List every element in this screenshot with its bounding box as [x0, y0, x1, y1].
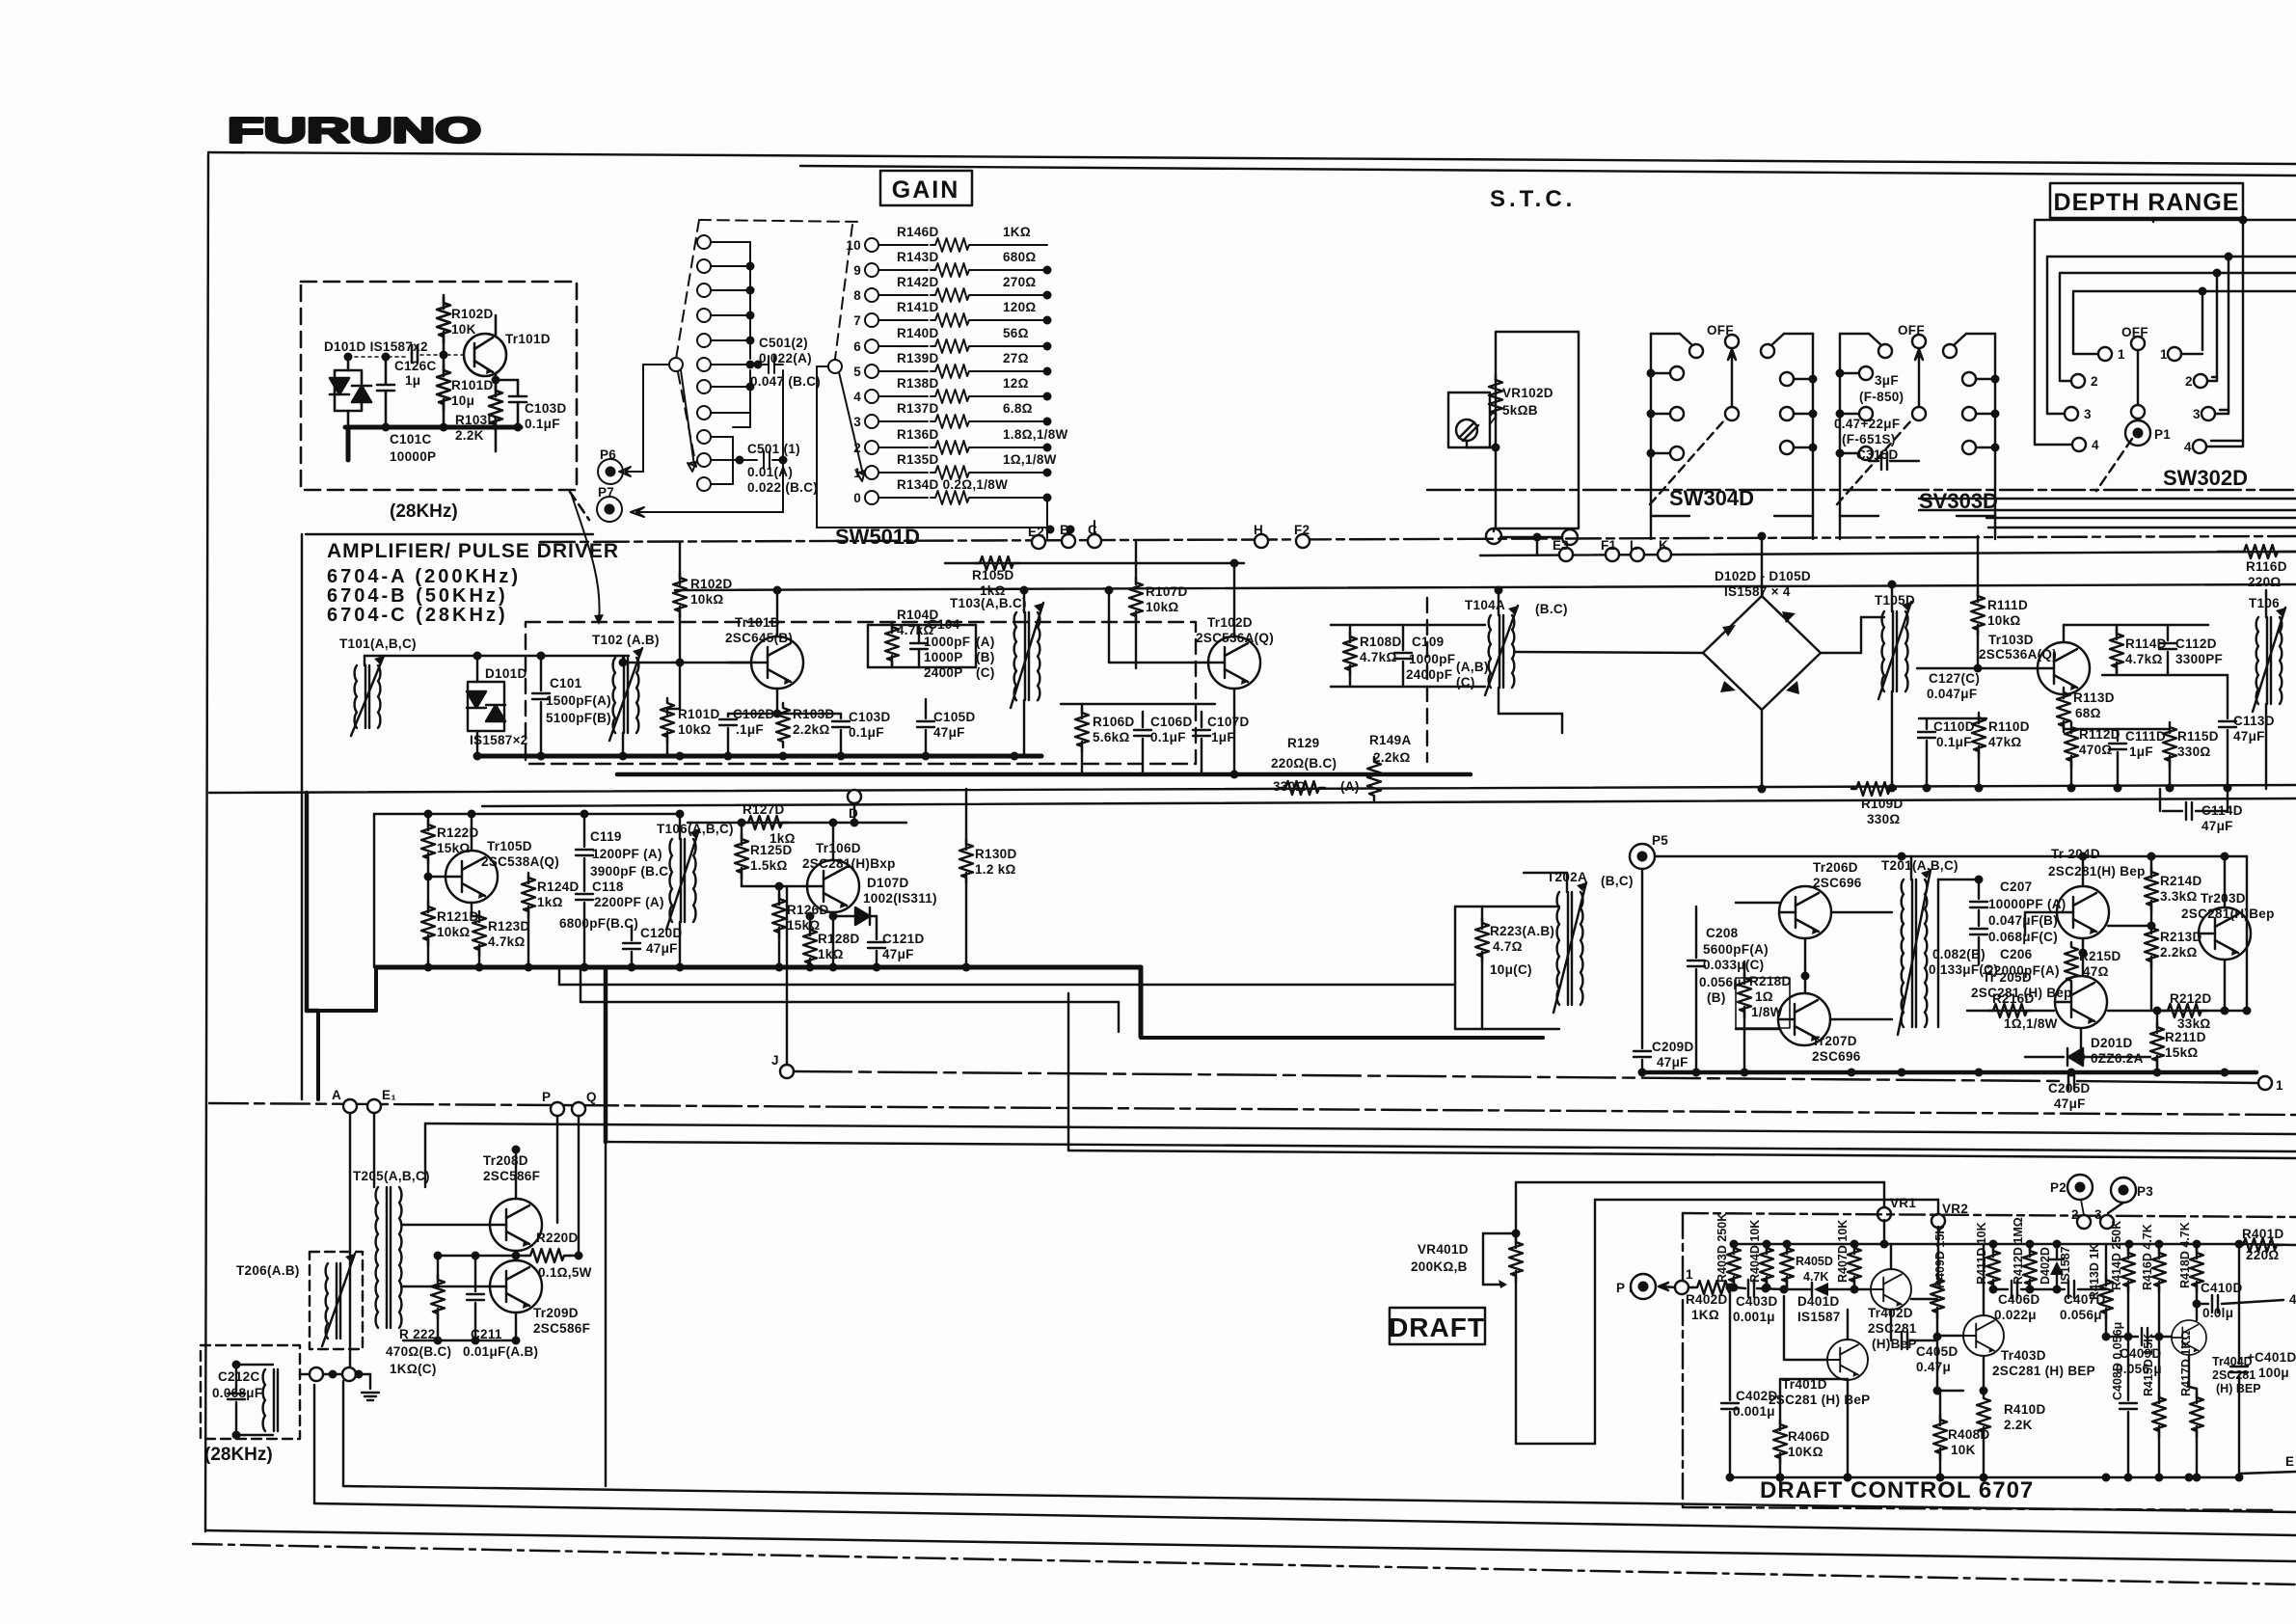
- svg-text:2SC281: 2SC281: [1868, 1321, 1917, 1336]
- svg-text:Tr401D: Tr401D: [1782, 1377, 1827, 1392]
- svg-text:470Ω(B.C): 470Ω(B.C): [386, 1344, 451, 1359]
- svg-text:R408D: R408D: [1948, 1427, 1990, 1442]
- svg-text:R134D 0.2Ω,1/8W: R134D 0.2Ω,1/8W: [897, 477, 1008, 492]
- svg-text:0ZZ6.2A: 0ZZ6.2A: [2091, 1051, 2144, 1066]
- svg-text:27Ω: 27Ω: [1003, 351, 1029, 365]
- svg-text:R135D: R135D: [897, 452, 939, 467]
- svg-text:4.7K: 4.7K: [1803, 1270, 1828, 1284]
- svg-text:R213D: R213D: [2160, 930, 2202, 944]
- svg-text:1KΩ(C): 1KΩ(C): [390, 1362, 437, 1376]
- svg-text:C113D: C113D: [2233, 714, 2275, 728]
- svg-text:R102D: R102D: [451, 307, 494, 321]
- svg-text:4.7Ω: 4.7Ω: [1493, 939, 1523, 954]
- svg-text:D401D: D401D: [1797, 1294, 1840, 1309]
- svg-text:6800pF(B.C): 6800pF(B.C): [559, 916, 638, 931]
- svg-text:T103(A,B.C): T103(A,B.C): [950, 596, 1027, 610]
- svg-text:VR1: VR1: [1890, 1196, 1916, 1210]
- svg-text:OFF: OFF: [1707, 323, 1734, 338]
- svg-text:2.2kΩ: 2.2kΩ: [793, 722, 830, 737]
- svg-text:2SC538A(Q): 2SC538A(Q): [481, 854, 559, 869]
- svg-text:R215D: R215D: [2079, 949, 2121, 963]
- svg-text:8: 8: [853, 288, 861, 303]
- svg-text:2SC281(H)Bxp: 2SC281(H)Bxp: [802, 856, 896, 871]
- svg-text:68Ω: 68Ω: [2075, 706, 2101, 720]
- svg-text:R139D: R139D: [897, 351, 939, 365]
- svg-text:C111D: C111D: [2125, 729, 2166, 744]
- svg-text:10kΩ: 10kΩ: [690, 592, 724, 607]
- svg-text:0.047μF(B): 0.047μF(B): [1988, 913, 2058, 928]
- svg-text:C120D: C120D: [640, 926, 683, 940]
- svg-text:R410D: R410D: [2004, 1402, 2046, 1417]
- svg-text:R110D: R110D: [1988, 719, 2030, 734]
- svg-text:R130D: R130D: [975, 847, 1017, 861]
- svg-text:Tr101D: Tr101D: [505, 332, 551, 346]
- svg-text:T104A: T104A: [1465, 598, 1505, 612]
- svg-text:0.022(A): 0.022(A): [759, 351, 812, 365]
- svg-text:47μF: 47μF: [933, 725, 965, 740]
- svg-text:R106D: R106D: [1093, 715, 1135, 729]
- svg-text:330Ω: 330Ω: [1273, 779, 1307, 794]
- svg-text:(F-850): (F-850): [1859, 390, 1904, 404]
- svg-text:R113D: R113D: [2073, 690, 2115, 705]
- svg-text:D402D: D402D: [2039, 1247, 2052, 1285]
- svg-text:F2: F2: [1294, 523, 1310, 537]
- svg-text:R109D: R109D: [1861, 797, 1904, 811]
- svg-text:C101: C101: [550, 676, 582, 690]
- svg-text:Q: Q: [586, 1090, 597, 1104]
- svg-text:1.2 kΩ: 1.2 kΩ: [975, 862, 1016, 877]
- svg-text:R214D: R214D: [2160, 874, 2202, 888]
- svg-text:5.6kΩ: 5.6kΩ: [1093, 730, 1130, 744]
- svg-text:10000P: 10000P: [390, 449, 436, 464]
- svg-text:P1: P1: [2154, 427, 2171, 442]
- svg-text:R409D 15K: R409D 15K: [1933, 1226, 1947, 1288]
- svg-text:C112D: C112D: [2175, 636, 2217, 651]
- svg-text:5600pF(A): 5600pF(A): [1703, 942, 1769, 957]
- svg-text:C101C: C101C: [390, 432, 432, 447]
- svg-text:(A): (A): [1340, 779, 1360, 794]
- svg-text:2SC281 (H) BEP: 2SC281 (H) BEP: [1992, 1364, 2095, 1378]
- svg-text:R141D: R141D: [897, 300, 939, 314]
- svg-text:2.2kΩ: 2.2kΩ: [2160, 945, 2198, 960]
- svg-text:R416D 4.7K: R416D 4.7K: [2141, 1224, 2154, 1290]
- svg-text:R212D: R212D: [2170, 991, 2212, 1006]
- svg-text:6.8Ω: 6.8Ω: [1003, 401, 1033, 416]
- svg-text:.1μF: .1μF: [736, 722, 764, 737]
- svg-text:Tr101D: Tr101D: [735, 615, 780, 630]
- svg-text:15kΩ: 15kΩ: [437, 841, 471, 855]
- svg-text:(B,C): (B,C): [1601, 874, 1634, 888]
- svg-text:R112D: R112D: [2079, 727, 2120, 742]
- svg-text:R129: R129: [1287, 736, 1319, 750]
- svg-text:C102D: C102D: [733, 707, 775, 721]
- svg-text:Tr403D: Tr403D: [2001, 1348, 2046, 1363]
- svg-text:10K: 10K: [1951, 1443, 1976, 1457]
- svg-text:2.2kΩ: 2.2kΩ: [1373, 750, 1411, 765]
- svg-text:T102 (A.B): T102 (A.B): [592, 633, 660, 647]
- svg-text:0.022 (B.C): 0.022 (B.C): [747, 480, 818, 495]
- svg-text:3: 3: [2193, 407, 2201, 421]
- svg-text:R115D: R115D: [2177, 729, 2219, 744]
- svg-text:0.1μF: 0.1μF: [525, 417, 560, 431]
- svg-text:0.0lμ: 0.0lμ: [2202, 1306, 2233, 1320]
- svg-text:OFF: OFF: [1898, 323, 1925, 338]
- svg-text:0.082(B): 0.082(B): [1932, 947, 1985, 961]
- svg-text:2400P: 2400P: [924, 665, 963, 680]
- svg-text:1KΩ: 1KΩ: [1691, 1308, 1719, 1322]
- svg-text:R128D: R128D: [818, 932, 860, 946]
- svg-text:4.7kΩ: 4.7kΩ: [488, 934, 526, 949]
- svg-text:3: 3: [2094, 1207, 2102, 1222]
- svg-text:1000pF: 1000pF: [924, 635, 970, 649]
- svg-text:VR2: VR2: [1942, 1202, 1968, 1216]
- svg-text:R101D: R101D: [451, 378, 494, 392]
- svg-text:(B): (B): [976, 650, 995, 664]
- svg-text:C402D: C402D: [1736, 1389, 1778, 1403]
- svg-text:Tr 204D: Tr 204D: [2051, 847, 2100, 861]
- svg-text:6704-B (50KHz): 6704-B (50KHz): [327, 585, 508, 607]
- svg-text:R123D: R123D: [488, 919, 530, 934]
- svg-text:(28KHz): (28KHz): [204, 1445, 273, 1465]
- svg-text:R138D: R138D: [897, 376, 939, 391]
- svg-text:R126D: R126D: [787, 903, 829, 917]
- svg-text:2SC281(H) Bеp: 2SC281(H) Bеp: [2048, 864, 2146, 879]
- svg-text:AMPLIFIER/ PULSE DRIVER: AMPLIFIER/ PULSE DRIVER: [327, 540, 619, 562]
- svg-text:R105D: R105D: [972, 568, 1014, 582]
- svg-text:R216D: R216D: [1992, 991, 2035, 1006]
- svg-text:SW302D: SW302D: [2163, 466, 2248, 490]
- svg-text:C104: C104: [928, 617, 960, 632]
- svg-text:Tr 205D: Tr 205D: [1983, 970, 2032, 985]
- svg-text:470Ω: 470Ω: [2079, 743, 2113, 757]
- svg-text:1.5kΩ: 1.5kΩ: [750, 858, 788, 873]
- svg-text:0.47+22μF: 0.47+22μF: [1834, 417, 1900, 431]
- svg-text:R218D: R218D: [1749, 974, 1792, 988]
- svg-text:R412D 1MΩ: R412D 1MΩ: [2012, 1217, 2025, 1285]
- svg-text:C103D: C103D: [525, 401, 567, 416]
- svg-text:47μF: 47μF: [2054, 1096, 2086, 1111]
- svg-text:R404D 10K: R404D 10K: [1748, 1220, 1762, 1283]
- svg-text:C: C: [1088, 523, 1097, 537]
- svg-text:10: 10: [846, 238, 861, 253]
- svg-text:3: 3: [853, 415, 861, 429]
- svg-text:6: 6: [853, 339, 861, 354]
- svg-text:Tr206D: Tr206D: [1813, 860, 1858, 875]
- svg-text:1μF: 1μF: [1211, 730, 1235, 744]
- svg-text:E: E: [2285, 1454, 2294, 1469]
- svg-text:2SC696: 2SC696: [1813, 876, 1862, 890]
- svg-text:0.001μ: 0.001μ: [1733, 1404, 1775, 1419]
- svg-text:R 222: R 222: [399, 1327, 436, 1341]
- svg-text:R417D 1KΩ: R417D 1KΩ: [2179, 1331, 2193, 1396]
- svg-text:R127D: R127D: [743, 802, 785, 817]
- svg-text:7: 7: [853, 313, 861, 328]
- svg-text:120Ω: 120Ω: [1003, 300, 1037, 314]
- svg-text:C209D: C209D: [1652, 1040, 1694, 1054]
- svg-text:33kΩ: 33kΩ: [2177, 1016, 2211, 1031]
- svg-text:12Ω: 12Ω: [1003, 376, 1029, 391]
- svg-text:DRAFT CONTROL 6707: DRAFT CONTROL 6707: [1760, 1477, 2034, 1503]
- svg-text:4.7kΩ: 4.7kΩ: [1360, 650, 1397, 664]
- svg-text:R401D: R401D: [2242, 1227, 2284, 1241]
- svg-text:H: H: [1254, 523, 1263, 537]
- svg-text:0.068μF: 0.068μF: [212, 1386, 262, 1400]
- svg-text:(B.C): (B.C): [1535, 602, 1568, 616]
- svg-text:R406D: R406D: [1788, 1429, 1830, 1444]
- svg-text:T106(A,B,C): T106(A,B,C): [657, 822, 734, 836]
- svg-text:P: P: [542, 1090, 551, 1104]
- svg-text:D101D IS1587x2: D101D IS1587x2: [324, 339, 428, 354]
- svg-text:47μF: 47μF: [646, 941, 678, 956]
- svg-text:R114D: R114D: [2125, 636, 2167, 651]
- svg-text:C501 (1): C501 (1): [747, 442, 800, 456]
- svg-text:0.047μF: 0.047μF: [1927, 687, 1977, 701]
- svg-text:T101(A,B,C): T101(A,B,C): [339, 636, 417, 651]
- svg-text:D101D: D101D: [485, 666, 527, 681]
- svg-text:Tr105D: Tr105D: [487, 839, 532, 853]
- svg-text:330Ω: 330Ω: [1867, 812, 1901, 826]
- svg-text:T205(A,B,C): T205(A,B,C): [353, 1169, 430, 1183]
- svg-text:1500pF(A): 1500pF(A): [546, 693, 611, 708]
- svg-text:4.7kΩ: 4.7kΩ: [2125, 652, 2163, 666]
- svg-text:2SC281: 2SC281: [2212, 1368, 2255, 1382]
- svg-text:47μF: 47μF: [882, 947, 914, 961]
- svg-text:R140D: R140D: [897, 326, 939, 340]
- svg-text:2: 2: [853, 441, 861, 455]
- svg-text:47Ω: 47Ω: [2083, 964, 2109, 979]
- svg-text:10μ: 10μ: [451, 393, 474, 408]
- svg-text:2400pF: 2400pF: [1406, 667, 1452, 682]
- svg-text:10kΩ: 10kΩ: [437, 925, 471, 939]
- svg-text:R407D 10K: R407D 10K: [1836, 1220, 1850, 1283]
- svg-text:R149A: R149A: [1369, 733, 1412, 747]
- svg-text:Tr207D: Tr207D: [1812, 1034, 1857, 1048]
- svg-text:S.T.C.: S.T.C.: [1490, 186, 1576, 212]
- svg-text:C206: C206: [2000, 947, 2033, 961]
- svg-text:OFF: OFF: [2121, 325, 2148, 339]
- svg-text:R142D: R142D: [897, 275, 939, 289]
- svg-text:F1: F1: [1601, 538, 1617, 553]
- svg-text:1Ω: 1Ω: [1755, 989, 1773, 1004]
- svg-text:10μ(C): 10μ(C): [1490, 962, 1532, 977]
- svg-text:1kΩ: 1kΩ: [980, 583, 1006, 598]
- svg-text:R411D 10K: R411D 10K: [1975, 1222, 1988, 1285]
- svg-text:J: J: [771, 1053, 779, 1068]
- svg-text:R116D: R116D: [2246, 559, 2287, 574]
- svg-text:P3: P3: [2137, 1184, 2153, 1199]
- svg-text:D: D: [849, 806, 858, 821]
- svg-text:Tr402D: Tr402D: [1868, 1306, 1913, 1320]
- svg-text:2SC586F: 2SC586F: [533, 1321, 590, 1336]
- svg-text:(H) BEP: (H) BEP: [2216, 1382, 2261, 1395]
- svg-text:0.056μ: 0.056μ: [1699, 975, 1742, 989]
- svg-text:0.47μ: 0.47μ: [1916, 1360, 1951, 1374]
- svg-text:Tr103D: Tr103D: [1988, 633, 2034, 647]
- svg-text:C121D: C121D: [882, 932, 925, 946]
- svg-text:2SC536A(Q): 2SC536A(Q): [1979, 647, 2057, 662]
- svg-text:C127(C): C127(C): [1929, 671, 1980, 686]
- svg-text:2.2K: 2.2K: [2004, 1418, 2033, 1432]
- svg-text:C126C: C126C: [394, 359, 437, 373]
- svg-text:A: A: [332, 1088, 341, 1102]
- svg-text:(A,B): (A,B): [1456, 660, 1489, 674]
- svg-text:1μF: 1μF: [2129, 744, 2153, 759]
- svg-text:P6: P6: [600, 447, 616, 462]
- svg-text:C205D: C205D: [2048, 1081, 2091, 1096]
- svg-text:0.1μF: 0.1μF: [1150, 730, 1186, 744]
- svg-text:R102D: R102D: [690, 577, 733, 591]
- svg-text:R211D: R211D: [2165, 1030, 2206, 1044]
- svg-text:(B): (B): [1707, 990, 1726, 1005]
- svg-text:2.2K: 2.2K: [455, 428, 484, 443]
- svg-text:K: K: [1659, 538, 1668, 553]
- svg-text:R418D 4.7K: R418D 4.7K: [2178, 1222, 2192, 1288]
- svg-text:0.022μ: 0.022μ: [1994, 1308, 2037, 1322]
- svg-text:R111D: R111D: [1987, 598, 2028, 612]
- svg-text:10kΩ: 10kΩ: [1987, 613, 2021, 628]
- svg-text:R220D: R220D: [536, 1231, 579, 1245]
- svg-text:C408D 0.056μ: C408D 0.056μ: [2111, 1322, 2124, 1400]
- svg-text:4: 4: [853, 390, 861, 404]
- svg-text:C410D: C410D: [2201, 1281, 2243, 1295]
- svg-text:0.1Ω,5W: 0.1Ω,5W: [538, 1265, 592, 1280]
- svg-text:1Ω,1/8W: 1Ω,1/8W: [1003, 452, 1057, 467]
- svg-text:47μF: 47μF: [1657, 1055, 1688, 1069]
- svg-text:2SC281 (H) BеP: 2SC281 (H) BеP: [1769, 1393, 1871, 1407]
- svg-text:R143D: R143D: [897, 250, 939, 264]
- svg-text:3: 3: [2084, 407, 2092, 421]
- svg-text:15kΩ: 15kΩ: [2165, 1045, 2199, 1060]
- svg-text:200KΩ,B: 200KΩ,B: [1411, 1259, 1468, 1274]
- svg-text:P2: P2: [2050, 1180, 2066, 1195]
- svg-text:0.001μ: 0.001μ: [1733, 1310, 1775, 1324]
- svg-text:0.047 (B.C): 0.047 (B.C): [750, 374, 821, 389]
- svg-text:C103D: C103D: [849, 710, 891, 724]
- svg-text:R223(A.B): R223(A.B): [1490, 924, 1554, 938]
- svg-text:D102D - D105D: D102D - D105D: [1715, 569, 1811, 583]
- svg-text:3300PF: 3300PF: [2175, 652, 2223, 666]
- svg-text:1: 1: [1686, 1267, 1693, 1282]
- svg-text:5: 5: [853, 365, 861, 379]
- svg-text:2SC281(H)Bеp: 2SC281(H)Bеp: [2181, 907, 2275, 921]
- svg-text:0.01(A): 0.01(A): [747, 465, 793, 479]
- svg-text:C105D: C105D: [933, 710, 976, 724]
- svg-text:2200PF (A): 2200PF (A): [594, 895, 664, 909]
- svg-text:0.068μF(C): 0.068μF(C): [1988, 930, 2058, 944]
- svg-text:10kΩ: 10kΩ: [1146, 600, 1179, 614]
- svg-text:IS1587: IS1587: [2059, 1246, 2072, 1285]
- svg-text:C405D: C405D: [1916, 1344, 1958, 1359]
- svg-text:9: 9: [853, 263, 861, 278]
- svg-text:R122D: R122D: [437, 826, 479, 840]
- svg-text:E₁: E₁: [382, 1088, 396, 1102]
- svg-text:1μ: 1μ: [405, 373, 420, 388]
- svg-text:1/8W: 1/8W: [1751, 1005, 1783, 1019]
- svg-text:Tr203D: Tr203D: [2201, 891, 2246, 906]
- svg-text:IS1587 × 4: IS1587 × 4: [1724, 584, 1791, 599]
- svg-text:4: 4: [2092, 438, 2099, 452]
- svg-text:D201D: D201D: [2091, 1036, 2133, 1050]
- svg-text:C403D: C403D: [1736, 1294, 1778, 1309]
- svg-text:0.1μF: 0.1μF: [1936, 735, 1972, 749]
- svg-text:R136D: R136D: [897, 427, 939, 442]
- svg-text:R125D: R125D: [750, 843, 793, 857]
- svg-text:T105D: T105D: [1875, 593, 1915, 608]
- svg-text:1: 1: [2160, 347, 2168, 362]
- svg-text:0: 0: [853, 491, 861, 505]
- svg-text:220Ω: 220Ω: [2246, 1248, 2280, 1262]
- svg-text:C107D: C107D: [1207, 715, 1250, 729]
- svg-text:R146D: R146D: [897, 225, 939, 239]
- svg-text:Tr106D: Tr106D: [816, 841, 861, 855]
- svg-text:R107D: R107D: [1146, 584, 1188, 599]
- svg-text:R103D: R103D: [793, 707, 835, 721]
- svg-text:(C): (C): [1456, 675, 1475, 690]
- svg-text:3μF: 3μF: [1875, 373, 1899, 388]
- svg-text:R137D: R137D: [897, 401, 939, 416]
- svg-text:DRAFT: DRAFT: [1389, 1313, 1485, 1342]
- svg-text:T106: T106: [2249, 596, 2280, 610]
- svg-text:(H)BеP: (H)BеP: [1872, 1337, 1917, 1351]
- svg-text:1200PF (A): 1200PF (A): [592, 847, 662, 861]
- svg-text:1kΩ: 1kΩ: [537, 895, 563, 909]
- svg-text:10000PF (A): 10000PF (A): [1988, 897, 2066, 911]
- svg-text:2SC696: 2SC696: [1812, 1049, 1861, 1064]
- svg-text:R101D: R101D: [678, 707, 720, 721]
- svg-text:1000pF: 1000pF: [1409, 652, 1455, 666]
- svg-text:1002(IS311): 1002(IS311): [863, 891, 937, 906]
- svg-text:100μ: 100μ: [2258, 1366, 2289, 1380]
- svg-text:FURUNO: FURUNO: [228, 112, 481, 150]
- svg-text:E3: E3: [1553, 538, 1569, 553]
- svg-text:(C): (C): [976, 665, 995, 680]
- svg-text:IS1587: IS1587: [1797, 1310, 1841, 1324]
- svg-text:2: 2: [2185, 374, 2193, 389]
- svg-text:C401D: C401D: [2255, 1350, 2296, 1365]
- svg-text:1kΩ: 1kΩ: [818, 947, 844, 961]
- svg-text:C501(2): C501(2): [759, 336, 808, 350]
- svg-text:VR102D: VR102D: [1502, 386, 1553, 400]
- svg-text:3.3kΩ: 3.3kΩ: [2160, 889, 2198, 904]
- svg-text:L: L: [1630, 538, 1638, 553]
- svg-text:4: 4: [2289, 1292, 2296, 1307]
- svg-text:1000P: 1000P: [924, 650, 963, 664]
- svg-text:R403D 250K: R403D 250K: [1715, 1213, 1729, 1283]
- svg-text:220Ω(B.C): 220Ω(B.C): [1271, 756, 1337, 771]
- svg-text:10kΩ: 10kΩ: [678, 722, 712, 737]
- svg-text:2SC645(B): 2SC645(B): [725, 631, 793, 645]
- svg-text:0.056μ: 0.056μ: [2060, 1308, 2102, 1322]
- svg-text:C406D: C406D: [1998, 1292, 2040, 1307]
- svg-text:1Ω,1/8W: 1Ω,1/8W: [2004, 1016, 2058, 1031]
- svg-text:C212C: C212C: [218, 1369, 260, 1384]
- svg-text:DEPTH RANGE: DEPTH RANGE: [2054, 189, 2240, 216]
- svg-text:2: 2: [2071, 1207, 2079, 1222]
- svg-text:T206(A.B): T206(A.B): [236, 1263, 300, 1278]
- svg-text:P7: P7: [598, 485, 614, 500]
- svg-text:P5: P5: [1652, 833, 1668, 848]
- svg-text:+: +: [2247, 1350, 2255, 1365]
- svg-text:C207: C207: [2000, 880, 2032, 894]
- svg-text:(28KHz): (28KHz): [390, 501, 458, 522]
- svg-text:GAIN: GAIN: [892, 176, 960, 203]
- svg-text:2SC586F: 2SC586F: [483, 1169, 540, 1183]
- svg-text:220Ω: 220Ω: [2248, 575, 2282, 589]
- svg-text:270Ω: 270Ω: [1003, 275, 1037, 289]
- svg-text:R415D 15K: R415D 15K: [2142, 1334, 2155, 1396]
- svg-text:B: B: [1060, 523, 1069, 537]
- svg-text:1: 1: [853, 466, 861, 480]
